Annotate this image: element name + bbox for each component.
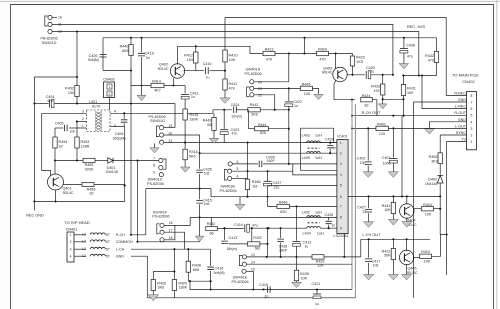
svg-text:1N4148: 1N4148 xyxy=(105,170,118,174)
svg-text:50K: 50K xyxy=(384,254,391,258)
node C429 bottom xyxy=(329,152,331,154)
svg-text:8: 8 xyxy=(153,164,155,168)
wire LCH out xyxy=(361,238,430,240)
svg-text:10K: 10K xyxy=(229,58,236,62)
svg-text:1u: 1u xyxy=(294,104,298,108)
bracket 13-14 xyxy=(239,255,242,265)
svg-text:R444: R444 xyxy=(258,123,266,127)
wire L401 pin2 xyxy=(77,121,87,123)
svg-text:3K9: 3K9 xyxy=(431,160,438,164)
resistor R437 xyxy=(247,242,260,246)
capacitor C426 xyxy=(100,54,107,57)
capacitor C404 xyxy=(48,100,50,108)
svg-text:21: 21 xyxy=(169,139,173,143)
svg-text:1: 1 xyxy=(340,141,342,145)
svg-text:62K: 62K xyxy=(280,210,287,214)
svg-text:R-CH: R-CH xyxy=(116,233,125,237)
svg-text:PS-82D06: PS-82D06 xyxy=(219,189,236,193)
svg-text:5T: 5T xyxy=(106,247,110,251)
svg-text:R404: R404 xyxy=(423,203,432,207)
svg-text:4: 4 xyxy=(237,174,239,178)
svg-text:1n: 1n xyxy=(332,224,336,228)
resistor R424 xyxy=(361,98,373,102)
wire pin19 riser xyxy=(174,104,176,128)
switch SW401B pin 5 xyxy=(228,169,232,173)
svg-text:C419: C419 xyxy=(259,283,268,287)
switch SW401D bracket xyxy=(45,16,48,26)
resistor R441 xyxy=(392,196,394,202)
node pin4 vert xyxy=(123,112,125,114)
svg-text:1u: 1u xyxy=(191,95,195,99)
capacitor C437 xyxy=(267,171,269,181)
svg-text:7: 7 xyxy=(153,156,155,160)
svg-text:C414: C414 xyxy=(234,223,243,227)
node C408 xyxy=(403,37,405,39)
svg-text:TO MAIN PCB: TO MAIN PCB xyxy=(452,73,478,78)
node C422 bottom xyxy=(288,163,290,165)
wire C409 to IC3 xyxy=(263,163,337,165)
node R423 bottom xyxy=(351,74,353,76)
wire R412 drop xyxy=(195,46,197,52)
wire GND pin7 xyxy=(413,101,466,103)
node rcw bus xyxy=(351,115,353,117)
wire R403 right xyxy=(432,235,441,257)
svg-text:R.CH OUT: R.CH OUT xyxy=(362,110,381,115)
svg-text:C408: C408 xyxy=(406,43,415,47)
node supply C420 xyxy=(392,74,394,76)
node Q402 base xyxy=(173,84,175,86)
node eq rail top xyxy=(288,52,290,54)
switch SW401D pin 11 xyxy=(48,22,52,26)
capacitor C414 xyxy=(244,224,246,232)
svg-text:120: 120 xyxy=(379,132,385,136)
switch SW401F pin 17 xyxy=(160,230,164,234)
wire L403 to IC1 xyxy=(320,142,337,144)
resistor R440 xyxy=(130,38,132,45)
resistor R446 xyxy=(277,204,290,208)
resistor R465 xyxy=(245,179,249,190)
svg-text:10K: 10K xyxy=(304,92,311,96)
svg-text:SW401G: SW401G xyxy=(150,119,165,123)
svg-text:4: 4 xyxy=(70,254,72,258)
svg-text:L2: L2 xyxy=(82,233,86,237)
wire pin22 jog xyxy=(254,95,275,110)
ground below Q404 xyxy=(402,222,412,228)
capacitor C412 xyxy=(293,241,301,243)
svg-text:9170: 9170 xyxy=(92,104,100,108)
ground below R441 xyxy=(388,220,398,226)
diode D402 xyxy=(437,176,443,184)
svg-text:R420: R420 xyxy=(318,48,327,52)
svg-text:C413: C413 xyxy=(229,236,238,240)
node jog xyxy=(189,280,191,282)
switch pin 21 xyxy=(160,140,164,144)
capacitor C406 xyxy=(123,113,125,118)
wire R444 link xyxy=(248,110,250,129)
svg-text:1u: 1u xyxy=(305,245,309,249)
wire head row R-CH xyxy=(74,234,86,236)
ground below R433 xyxy=(382,99,384,104)
node recgnd xyxy=(33,200,35,202)
ground below C419 xyxy=(141,86,143,96)
svg-text:C410: C410 xyxy=(203,62,212,66)
svg-text:470: 470 xyxy=(428,58,434,62)
svg-text:1n5: 1n5 xyxy=(373,264,379,268)
node base R456 xyxy=(124,185,126,187)
wire pin11 to right column xyxy=(52,25,393,76)
svg-text:R403: R403 xyxy=(421,250,430,254)
resistor R436 xyxy=(187,249,189,261)
svg-text:4K7: 4K7 xyxy=(154,88,161,92)
node rm2 xyxy=(392,195,394,197)
transistor Q402 xyxy=(170,64,184,78)
switch SW401E pin 15 xyxy=(242,269,246,273)
resistor R413 xyxy=(263,51,275,55)
resistor R456 xyxy=(82,182,94,186)
capacitor C402 xyxy=(367,128,369,160)
ground rail196 xyxy=(239,197,241,205)
resistor R423 xyxy=(352,54,354,56)
node rail38 R440 xyxy=(130,37,132,39)
svg-text:R424: R424 xyxy=(362,94,371,98)
resistor R450 xyxy=(438,153,442,164)
svg-text:2: 2 xyxy=(70,240,72,244)
svg-text:R413: R413 xyxy=(265,48,274,52)
diode D401 xyxy=(108,158,113,164)
node emitter bus xyxy=(351,99,353,101)
switch SW401C pin 8 xyxy=(159,166,163,170)
bus shield line right xyxy=(354,104,356,298)
ground SW401C common xyxy=(154,144,156,148)
wire R455 to D401 xyxy=(95,160,108,162)
svg-text:470: 470 xyxy=(266,57,272,61)
svg-text:68: 68 xyxy=(210,231,214,235)
switch SW401F pin 16 xyxy=(160,223,164,227)
resistor R442 xyxy=(248,108,261,112)
svg-text:47K: 47K xyxy=(373,89,380,93)
wire box upper xyxy=(146,188,211,190)
svg-text:GND: GND xyxy=(458,118,467,122)
resistor R426 xyxy=(151,280,155,291)
capacitor C417 xyxy=(368,239,370,257)
wire pin18 stub xyxy=(164,225,175,239)
wire Q401 emitter xyxy=(55,190,57,202)
node head b xyxy=(136,241,138,243)
capacitor C401 xyxy=(392,128,394,157)
resistor R431 lower xyxy=(392,239,394,248)
node C419 base wire xyxy=(140,84,142,86)
wire C404 row xyxy=(34,103,48,105)
svg-text:47u: 47u xyxy=(407,55,413,59)
node lch3 xyxy=(406,238,408,240)
node R454 bottom xyxy=(54,159,56,161)
node rm4 xyxy=(439,195,441,197)
svg-text:18: 18 xyxy=(169,236,173,240)
wire IC pin5 row xyxy=(268,185,337,187)
svg-text:10K: 10K xyxy=(407,91,414,95)
svg-text:10K: 10K xyxy=(301,276,308,280)
bracket 16-17 xyxy=(157,224,160,234)
wire 7V pin1 xyxy=(447,141,467,143)
wire mid vertical a xyxy=(247,143,249,180)
pin 1 CN403 xyxy=(107,84,112,89)
svg-text:17: 17 xyxy=(169,228,173,232)
svg-text:47u: 47u xyxy=(47,99,53,103)
bracket 19-20 xyxy=(156,126,159,137)
wire L-REC pin6 xyxy=(422,76,467,109)
dashes L403 L405 xyxy=(308,147,320,149)
svg-text:D402: D402 xyxy=(428,178,437,182)
svg-text:3: 3 xyxy=(471,127,473,131)
svg-text:82: 82 xyxy=(364,103,368,107)
wire coil box xyxy=(301,128,337,170)
svg-text:CN402: CN402 xyxy=(462,79,475,84)
capacitor C409 xyxy=(259,161,262,168)
switch pin 20 xyxy=(160,133,164,137)
wire pin15 drop xyxy=(252,271,254,289)
svg-text:1u: 1u xyxy=(315,302,319,306)
switch SW401H pin 22 xyxy=(250,93,254,97)
wire pin3 to pin4 link xyxy=(292,164,294,171)
node rm1 xyxy=(368,195,370,197)
svg-text:180K: 180K xyxy=(190,117,199,121)
svg-text:GND: GND xyxy=(116,254,124,258)
wire r436 bottom jog xyxy=(188,280,210,282)
svg-text:1n: 1n xyxy=(333,146,337,150)
wire pin15 stub xyxy=(246,270,253,272)
wire rail right mid xyxy=(348,195,440,197)
svg-text:SYNC: SYNC xyxy=(456,131,467,135)
node q404 top xyxy=(406,195,408,197)
svg-text:18n(m): 18n(m) xyxy=(227,247,238,251)
resistor R403 xyxy=(420,254,432,258)
bracket 5-4 xyxy=(224,170,227,180)
svg-text:6: 6 xyxy=(340,195,342,199)
switch SW401D pin 12 xyxy=(48,29,52,33)
ground below C427 xyxy=(364,222,374,228)
wire pin4 row xyxy=(232,177,248,179)
switch SW401F pin 18 xyxy=(160,238,164,242)
svg-text:PS-82D06: PS-82D06 xyxy=(147,182,164,186)
node Q403 base feed xyxy=(335,52,337,54)
svg-text:10K: 10K xyxy=(424,260,431,264)
capacitor C424 xyxy=(234,107,237,114)
wire head row COMMON xyxy=(74,241,86,243)
node C428 bottom xyxy=(328,227,330,229)
wire rec return xyxy=(402,75,437,77)
node C410 R410 xyxy=(224,70,226,72)
wire mid vertical b xyxy=(267,228,269,257)
node pin12 junction xyxy=(76,30,78,32)
capacitor C427 xyxy=(368,196,370,208)
svg-text:1u: 1u xyxy=(371,70,375,74)
ground after R445 xyxy=(314,94,324,99)
svg-text:2: 2 xyxy=(471,134,473,138)
svg-text:47u: 47u xyxy=(252,223,258,227)
bus shield line left xyxy=(351,100,353,290)
svg-text:10: 10 xyxy=(58,15,62,19)
wire R444 row xyxy=(249,128,255,130)
resistor R431 upper xyxy=(403,76,405,85)
pin 2 CN403 xyxy=(107,91,112,96)
svg-text:1: 1 xyxy=(70,233,72,237)
node pin2 xyxy=(76,120,78,122)
capacitor C411 xyxy=(184,86,186,94)
svg-text:1uH: 1uH xyxy=(317,231,324,235)
wire pin19 stub xyxy=(164,127,175,129)
node pin5 c437 xyxy=(267,170,269,172)
wire lch drop xyxy=(360,239,362,257)
svg-text:PS-82D06: PS-82D06 xyxy=(152,215,169,219)
svg-text:L2: L2 xyxy=(82,240,86,244)
wire Q402 collector up xyxy=(178,46,264,64)
wire base up xyxy=(173,78,175,85)
wire r426 corner xyxy=(152,272,154,280)
svg-text:1K5: 1K5 xyxy=(187,58,194,62)
capacitor C416 xyxy=(210,249,212,266)
svg-text:C416: C416 xyxy=(215,267,224,271)
svg-text:160P: 160P xyxy=(267,159,276,163)
wire Q405 emitter xyxy=(406,264,408,274)
wire R425 column xyxy=(173,249,175,298)
wire R422 right xyxy=(217,227,244,229)
svg-text:24: 24 xyxy=(258,80,262,84)
wire Q404 collector xyxy=(406,196,408,204)
wire R437 row xyxy=(229,243,248,245)
node rb1 xyxy=(316,288,318,290)
wire SYNC pin2 xyxy=(440,134,466,136)
svg-text:COMMON: COMMON xyxy=(116,240,133,244)
bracket SW401H xyxy=(247,87,250,96)
svg-text:1M: 1M xyxy=(252,185,257,189)
switch SW401E pin 13 xyxy=(242,255,246,259)
svg-text:12K: 12K xyxy=(317,264,324,268)
node pin7 wire xyxy=(136,159,138,161)
svg-text:R414: R414 xyxy=(152,80,161,84)
svg-text:470: 470 xyxy=(319,57,325,61)
resistor R443 xyxy=(213,113,215,117)
node head a xyxy=(130,234,132,236)
capacitor C438 xyxy=(280,228,282,238)
svg-text:R446: R446 xyxy=(279,201,288,205)
node b0 xyxy=(266,227,268,229)
resistor R444 xyxy=(255,127,269,131)
node C402 top xyxy=(367,127,369,129)
wire L401 pin5 xyxy=(110,125,125,127)
resistor R412 xyxy=(194,52,198,63)
node r452 top xyxy=(76,76,78,78)
wire rail153 xyxy=(200,152,337,154)
capacitor C428 xyxy=(328,217,330,220)
wire C414 right xyxy=(250,227,307,229)
wire R437 feed xyxy=(251,228,253,244)
svg-text:7: 7 xyxy=(340,205,342,209)
svg-text:C421: C421 xyxy=(312,282,321,286)
svg-text:1n5: 1n5 xyxy=(204,202,210,206)
resistor R435 xyxy=(296,206,298,240)
capacitor C425 xyxy=(199,153,201,169)
resistor R425 xyxy=(172,280,176,291)
resistor R453 xyxy=(76,122,78,138)
ground below Q405 xyxy=(402,275,412,280)
resistor R445 xyxy=(301,86,313,90)
svg-text:L2: L2 xyxy=(82,247,86,251)
node lrec tap xyxy=(421,74,423,76)
connector CN402 body xyxy=(467,92,477,150)
ground below C402 xyxy=(363,172,373,178)
resistor R415 xyxy=(183,109,187,120)
wire R456 right xyxy=(94,184,125,186)
capacitor C423 xyxy=(223,110,225,129)
svg-text:9: 9 xyxy=(153,171,155,175)
svg-text:1u: 1u xyxy=(206,76,210,80)
wire pin12 down xyxy=(76,32,78,78)
wire L-OUT pin3 xyxy=(352,127,467,129)
node r425 top xyxy=(173,270,175,272)
wire base drop Q403 xyxy=(335,54,337,70)
coil L403 xyxy=(307,141,321,143)
wire rail217 xyxy=(190,216,337,218)
svg-text:R-OUT: R-OUT xyxy=(454,111,466,115)
transistor Q404 xyxy=(400,204,414,218)
node r437 feed xyxy=(251,227,253,229)
node pin13 r435 xyxy=(295,256,297,258)
node rail196 r465 xyxy=(246,196,248,198)
ground below R416 xyxy=(181,167,191,172)
wire head column b xyxy=(137,161,139,242)
node pin12 rec xyxy=(418,74,420,76)
wire Q402 emitter to C410 xyxy=(184,70,205,72)
ground COMMON xyxy=(195,236,203,242)
node r442 pin22 xyxy=(274,109,276,111)
wire IC bottom stub xyxy=(343,234,345,257)
svg-text:1uH: 1uH xyxy=(315,156,322,160)
svg-text:IC401: IC401 xyxy=(337,134,347,138)
wire pin5 row xyxy=(232,171,337,175)
wire R444 right xyxy=(269,128,289,130)
bracket 7-8 xyxy=(163,159,166,169)
node C404 right xyxy=(76,102,78,104)
wire Q403 emitter to R424 xyxy=(334,80,355,100)
wire Q405 collector xyxy=(406,239,408,251)
op-amp IC401 body xyxy=(337,140,348,234)
node R415 bottom xyxy=(184,142,186,144)
svg-text:6: 6 xyxy=(471,107,473,111)
coil L405 xyxy=(307,151,321,153)
capacitor C420 xyxy=(365,71,367,79)
node R420 left xyxy=(303,52,305,54)
page top edge xyxy=(0,0,500,2)
wire pin23 to R445 xyxy=(254,87,300,89)
wire Q401 base xyxy=(63,184,82,186)
svg-text:3n9(M): 3n9(M) xyxy=(214,271,225,275)
wire L404 to IC9 xyxy=(320,227,337,229)
node ic bottom xyxy=(343,256,345,258)
capacitor C413 xyxy=(224,228,226,240)
svg-text:3: 3 xyxy=(70,247,72,251)
wire R-REC top rail xyxy=(225,18,446,96)
svg-text:R432: R432 xyxy=(207,222,216,226)
wire pin20 jog xyxy=(164,135,200,153)
svg-text:C428: C428 xyxy=(325,213,334,217)
wire R-OUT pin5 xyxy=(352,115,467,117)
svg-text:10n: 10n xyxy=(70,130,76,134)
svg-text:L402: L402 xyxy=(302,211,310,215)
capacitor C410 xyxy=(205,67,208,74)
svg-text:1K5: 1K5 xyxy=(357,60,364,64)
svg-text:PS-82D06: PS-82D06 xyxy=(245,72,262,76)
svg-text:150: 150 xyxy=(68,91,74,95)
